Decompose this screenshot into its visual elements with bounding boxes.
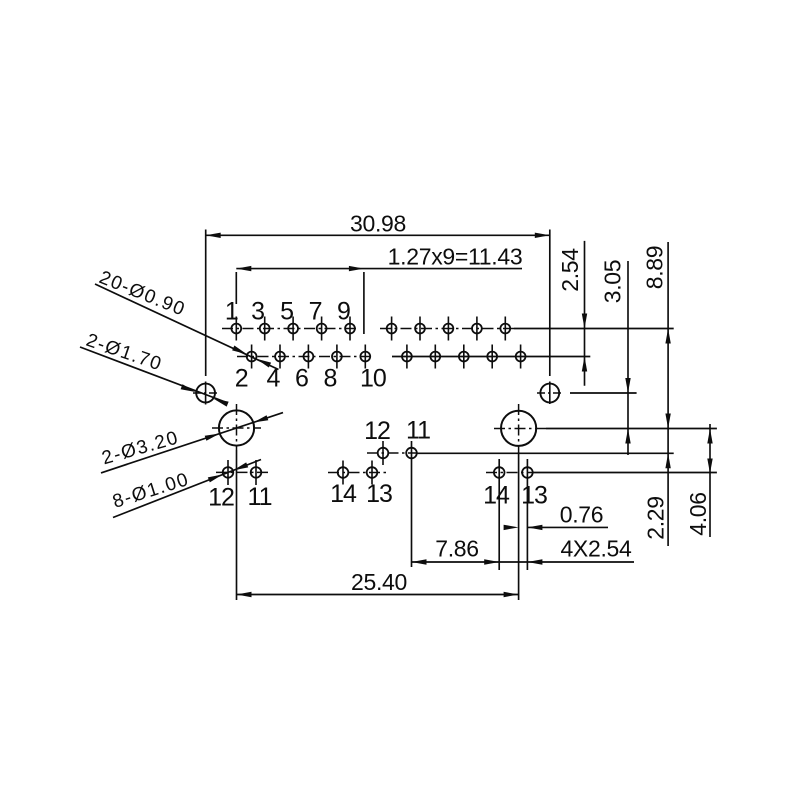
hole bottom row #3 (304, 352, 314, 362)
2.29 bottom arrow (665, 453, 670, 468)
centerline right pair 14-13 (486, 472, 533, 474)
dim line 25.40 (237, 594, 519, 596)
svg-text:13: 13 (521, 482, 547, 510)
extension of top row to right (514, 328, 674, 330)
left 1.7 hole horizontal tick (193, 392, 218, 394)
ext line below middle hole 11 (411, 441, 413, 567)
svg-text:25.40: 25.40 (351, 569, 407, 595)
svg-text:30.98: 30.98 (350, 211, 406, 237)
right 1.7 hole vertical tick (549, 382, 551, 405)
hole top row #6 (387, 324, 397, 334)
hole bottom row #7 (430, 352, 440, 362)
hole 1.70mm left (196, 384, 215, 403)
svg-text:3.05: 3.05 (600, 260, 626, 304)
svg-text:14: 14 (330, 480, 357, 508)
hole bottom row #6 (402, 352, 412, 362)
mounting hole 3.20mm right (501, 411, 536, 446)
hole 1.00mm right 13 (522, 467, 533, 478)
svg-text:3: 3 (251, 298, 264, 326)
centerline bottom row left group (237, 356, 374, 358)
8.89 top arrow (665, 329, 670, 344)
hole bottom row #2 (275, 352, 285, 362)
hole 1.00mm middle 13 (367, 467, 378, 478)
dim line 2.54 (584, 241, 586, 386)
svg-text:5: 5 (280, 298, 293, 326)
svg-text:9: 9 (337, 298, 350, 326)
hole top row #4 (317, 324, 327, 334)
hole bottom row #9 (487, 352, 497, 362)
hole 1.00mm middle 11 (406, 448, 417, 459)
svg-text:11: 11 (406, 417, 430, 445)
hole bottom row #8 (459, 352, 469, 362)
svg-text:12: 12 (364, 417, 390, 445)
hole bottom row #5 (360, 352, 370, 362)
hole top row #8 (444, 324, 454, 334)
svg-text:6: 6 (295, 365, 308, 393)
ext line pin1 (235, 272, 237, 304)
svg-text:8.89: 8.89 (642, 246, 668, 290)
centerline left pair 12-11 (216, 471, 271, 473)
svg-text:14: 14 (483, 482, 510, 510)
svg-text:1.27x9=11.43: 1.27x9=11.43 (388, 244, 523, 270)
svg-text:7: 7 (309, 298, 322, 326)
svg-text:8: 8 (323, 365, 336, 393)
hole 1.00mm left 11 (251, 467, 262, 478)
left 3.2 hole horizontal centerline (212, 427, 261, 429)
svg-text:11: 11 (248, 483, 272, 511)
ext line left (to 1.7 hole) (205, 230, 207, 377)
extension of middle 11 row to right (417, 452, 674, 454)
8.89 bottom arrow (665, 414, 670, 429)
ext line below right hole 14 (498, 459, 500, 570)
hole top row #10 (500, 324, 510, 334)
leader 2-3.20 to left 3.2 hole (101, 413, 283, 473)
right 1.7 hole horizontal tick (537, 392, 562, 394)
leader 2-1.70 to left 1.7 hole (80, 347, 228, 403)
extension of right 14-13 row to right (533, 472, 717, 474)
centerline middle pair 12-11 (367, 452, 417, 454)
centerline middle pair 14-13 (328, 472, 386, 474)
hole bottom row #10 (516, 352, 526, 362)
left 3.2 hole centerline extension down (236, 450, 238, 600)
hole top row #7 (415, 324, 425, 334)
dim line 7.86 + 4X2.54 (412, 561, 635, 563)
hole 1.70mm right (540, 384, 559, 403)
left 1.7 hole vertical tick (205, 382, 207, 405)
left 3.2 hole vertical centerline (236, 404, 238, 450)
dim line 0.76 with landing (527, 526, 608, 528)
svg-text:4.06: 4.06 (685, 492, 711, 536)
centerline top row left group (222, 328, 358, 330)
right 3.2 hole vertical centerline (518, 404, 520, 452)
svg-text:12: 12 (208, 484, 234, 512)
dim line 30.98 (206, 234, 550, 236)
right 3.2 hole centerline extension right (546, 428, 717, 430)
ext line pin10 (363, 272, 365, 334)
svg-text:10: 10 (360, 365, 386, 393)
hole 1.00mm middle 14 (338, 467, 349, 478)
hole bottom row #4 (332, 352, 342, 362)
right 3.2 hole centerline extension down (518, 452, 520, 600)
leader 8-1.00 to left hole 12 (113, 460, 261, 518)
right 3.2 hole horizontal centerline (494, 428, 546, 430)
svg-text:0.76: 0.76 (560, 502, 604, 528)
hole 1.00mm left 12 (223, 467, 234, 478)
dim line 3.05 (627, 261, 629, 455)
hole 1.00mm right 14 (494, 467, 505, 478)
hole top row #9 (472, 324, 482, 334)
hole top row #1 (231, 324, 241, 334)
leader 20-0.90 to pin 2 (95, 284, 279, 370)
hole 1.00mm middle 12 (378, 448, 389, 459)
hole top row #3 (288, 324, 298, 334)
hole bottom row #1 (247, 352, 257, 362)
dim line 8.89 + 2.29 (667, 242, 669, 546)
svg-text:7.86: 7.86 (435, 536, 479, 562)
mounting hole 3.20mm left (219, 410, 254, 445)
ext line right (to 1.7 hole) (549, 230, 551, 377)
svg-text:13: 13 (366, 480, 392, 508)
right 1.7 hole extension line right (570, 392, 637, 394)
dim line 4.06 (709, 424, 711, 537)
svg-text:4X2.54: 4X2.54 (560, 536, 632, 562)
svg-text:2: 2 (235, 365, 248, 393)
svg-text:2.54: 2.54 (557, 248, 583, 292)
centerline bottom row right group + extension (392, 356, 590, 358)
svg-text:2.29: 2.29 (643, 496, 669, 540)
ext line below right hole 13 (526, 459, 528, 570)
hole top row #5 (345, 324, 355, 334)
centerline top row right group (380, 328, 514, 330)
dim line 1.27x9 (236, 268, 522, 270)
hole top row #2 (260, 324, 270, 334)
